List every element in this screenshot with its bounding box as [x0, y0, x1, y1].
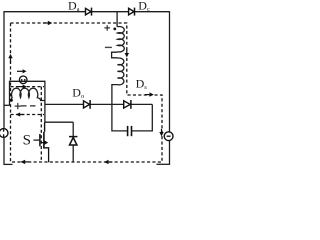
wire secondary bottom lead — [112, 85, 118, 105]
svg-text:Do: Do — [72, 86, 84, 101]
wire bottom bus right stub — [157, 163, 170, 165]
diode freewheel — [69, 137, 77, 145]
diode Dc — [129, 8, 135, 16]
probe circle — [19, 76, 27, 84]
diode Do — [84, 100, 91, 109]
wire input link — [4, 104, 10, 106]
svg-text:Da: Da — [68, 0, 80, 13]
transistor arrow — [42, 140, 49, 144]
dashed loop switch leg — [40, 87, 42, 162]
source input circle — [0, 129, 8, 138]
wire bottom bus left stub — [4, 163, 13, 165]
wire right rail — [169, 11, 171, 165]
wire capacitor left leg — [112, 104, 127, 130]
arrow flow clamp right — [145, 92, 154, 96]
arrow flow bottom left — [20, 160, 29, 164]
capacitor C plates — [128, 126, 132, 136]
minus secondary — [105, 46, 112, 48]
wire transformer top side — [10, 80, 45, 82]
svg-text:Dc: Dc — [138, 0, 150, 13]
arrow flow bottom mid left — [104, 160, 112, 164]
dashed loop transformer bottom — [11, 114, 45, 116]
diode Ds — [124, 100, 131, 109]
diode Da — [86, 8, 92, 16]
wire transformer right side — [44, 81, 46, 123]
node secondary dot — [113, 28, 116, 31]
inductor winding secondary 2 — [118, 58, 124, 85]
wire transformer left side — [9, 81, 11, 106]
probe arrow — [17, 69, 27, 73]
wire winding jog — [112, 52, 118, 58]
wire drain bus — [45, 121, 73, 123]
wire capacitor right lead — [132, 130, 153, 132]
wire clamp right leg — [151, 104, 153, 131]
arrow flow secondary down — [125, 50, 129, 58]
dashed polarity line primary — [21, 105, 39, 107]
wire D_o bus — [45, 103, 152, 105]
dashed loop transformer top — [11, 86, 45, 88]
inductor winding primary — [11, 88, 45, 100]
dashed loop outer — [11, 23, 163, 162]
wire secondary top lead — [116, 12, 118, 27]
source output circle — [164, 132, 173, 141]
wire freewheel diode leg — [72, 122, 74, 162]
arrow flow transformer right — [17, 85, 27, 89]
plus secondary — [104, 25, 110, 31]
svg-text:Ds: Ds — [136, 76, 148, 91]
svg-text:S: S — [23, 133, 31, 149]
arrow flow transformer left — [16, 112, 24, 116]
arrow flow top right — [43, 21, 52, 25]
node primary dot — [10, 99, 13, 102]
inductor winding secondary 1 — [118, 27, 125, 52]
plus primary — [15, 103, 21, 109]
arrow flow output down — [159, 129, 163, 137]
wire left rail — [3, 11, 5, 165]
arrow flow left up — [8, 54, 12, 63]
wire top bus — [4, 11, 170, 13]
transistor Q switch S — [34, 122, 49, 162]
